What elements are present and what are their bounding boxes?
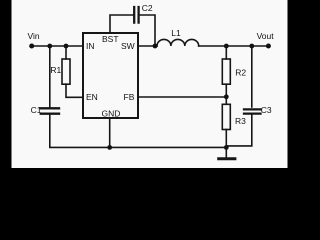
svg-text:GND: GND xyxy=(102,109,121,119)
wire FB pin to divider node xyxy=(138,96,226,98)
svg-text:R1: R1 xyxy=(50,65,61,75)
node GND rail junction xyxy=(107,145,112,150)
wire R2 bottom lead xyxy=(225,84,227,97)
svg-text:EN: EN xyxy=(86,92,98,102)
wire R2 top lead xyxy=(225,46,227,59)
wire Vin rail to IN pin xyxy=(32,45,83,47)
wire C1 bottom + ground rail xyxy=(50,115,227,147)
node FB divider junction xyxy=(224,94,229,99)
resistor R3 xyxy=(222,104,230,129)
wire C3 branch from Vout rail xyxy=(251,46,253,107)
ground symbol bar xyxy=(219,157,235,160)
svg-text:FB: FB xyxy=(124,92,135,102)
inductor L1 xyxy=(157,39,199,46)
svg-text:R3: R3 xyxy=(235,116,246,126)
svg-text:C3: C3 xyxy=(261,105,272,115)
svg-text:R2: R2 xyxy=(235,67,246,77)
wire C2 right to SW node xyxy=(140,15,155,46)
wire R3 top lead xyxy=(225,97,227,104)
node R1 junction xyxy=(64,44,69,49)
wire L1 to Vout xyxy=(199,45,269,47)
svg-text:L1: L1 xyxy=(171,28,181,38)
node Vout terminal dot xyxy=(266,44,271,49)
wire C1 branch down xyxy=(49,46,51,107)
op-amp U1 regulator box xyxy=(83,33,138,118)
wire R1 bottom to EN pin xyxy=(66,84,83,97)
wire SW stub to C2 junction xyxy=(138,45,157,47)
wire BST branch xyxy=(110,15,133,33)
wire R1 top lead xyxy=(65,46,67,59)
svg-text:Vout: Vout xyxy=(257,31,275,41)
node C3 junction xyxy=(249,44,254,49)
node SW-C2 junction xyxy=(153,44,158,49)
svg-text:BST: BST xyxy=(102,34,119,44)
node R2 junction xyxy=(224,44,229,49)
capacitor C1 xyxy=(41,108,59,113)
ground symbol stub xyxy=(225,147,227,157)
svg-text:Vin: Vin xyxy=(28,31,40,41)
node Vin terminal dot xyxy=(29,44,34,49)
svg-text:SW: SW xyxy=(121,41,135,51)
node C1 junction xyxy=(47,44,52,49)
svg-text:IN: IN xyxy=(86,41,95,51)
background white panel xyxy=(12,0,288,168)
resistor R1 xyxy=(62,59,70,84)
capacitor C3 xyxy=(244,109,261,113)
wire GND pin down xyxy=(109,118,111,147)
resistor R2 xyxy=(222,59,230,84)
node ground junction xyxy=(224,145,229,150)
wire R3 bottom lead xyxy=(225,130,227,148)
svg-text:C2: C2 xyxy=(142,3,153,13)
capacitor C2 xyxy=(134,7,138,23)
svg-text:C1: C1 xyxy=(31,105,42,115)
wire C3 bottom to ground node xyxy=(226,115,252,146)
